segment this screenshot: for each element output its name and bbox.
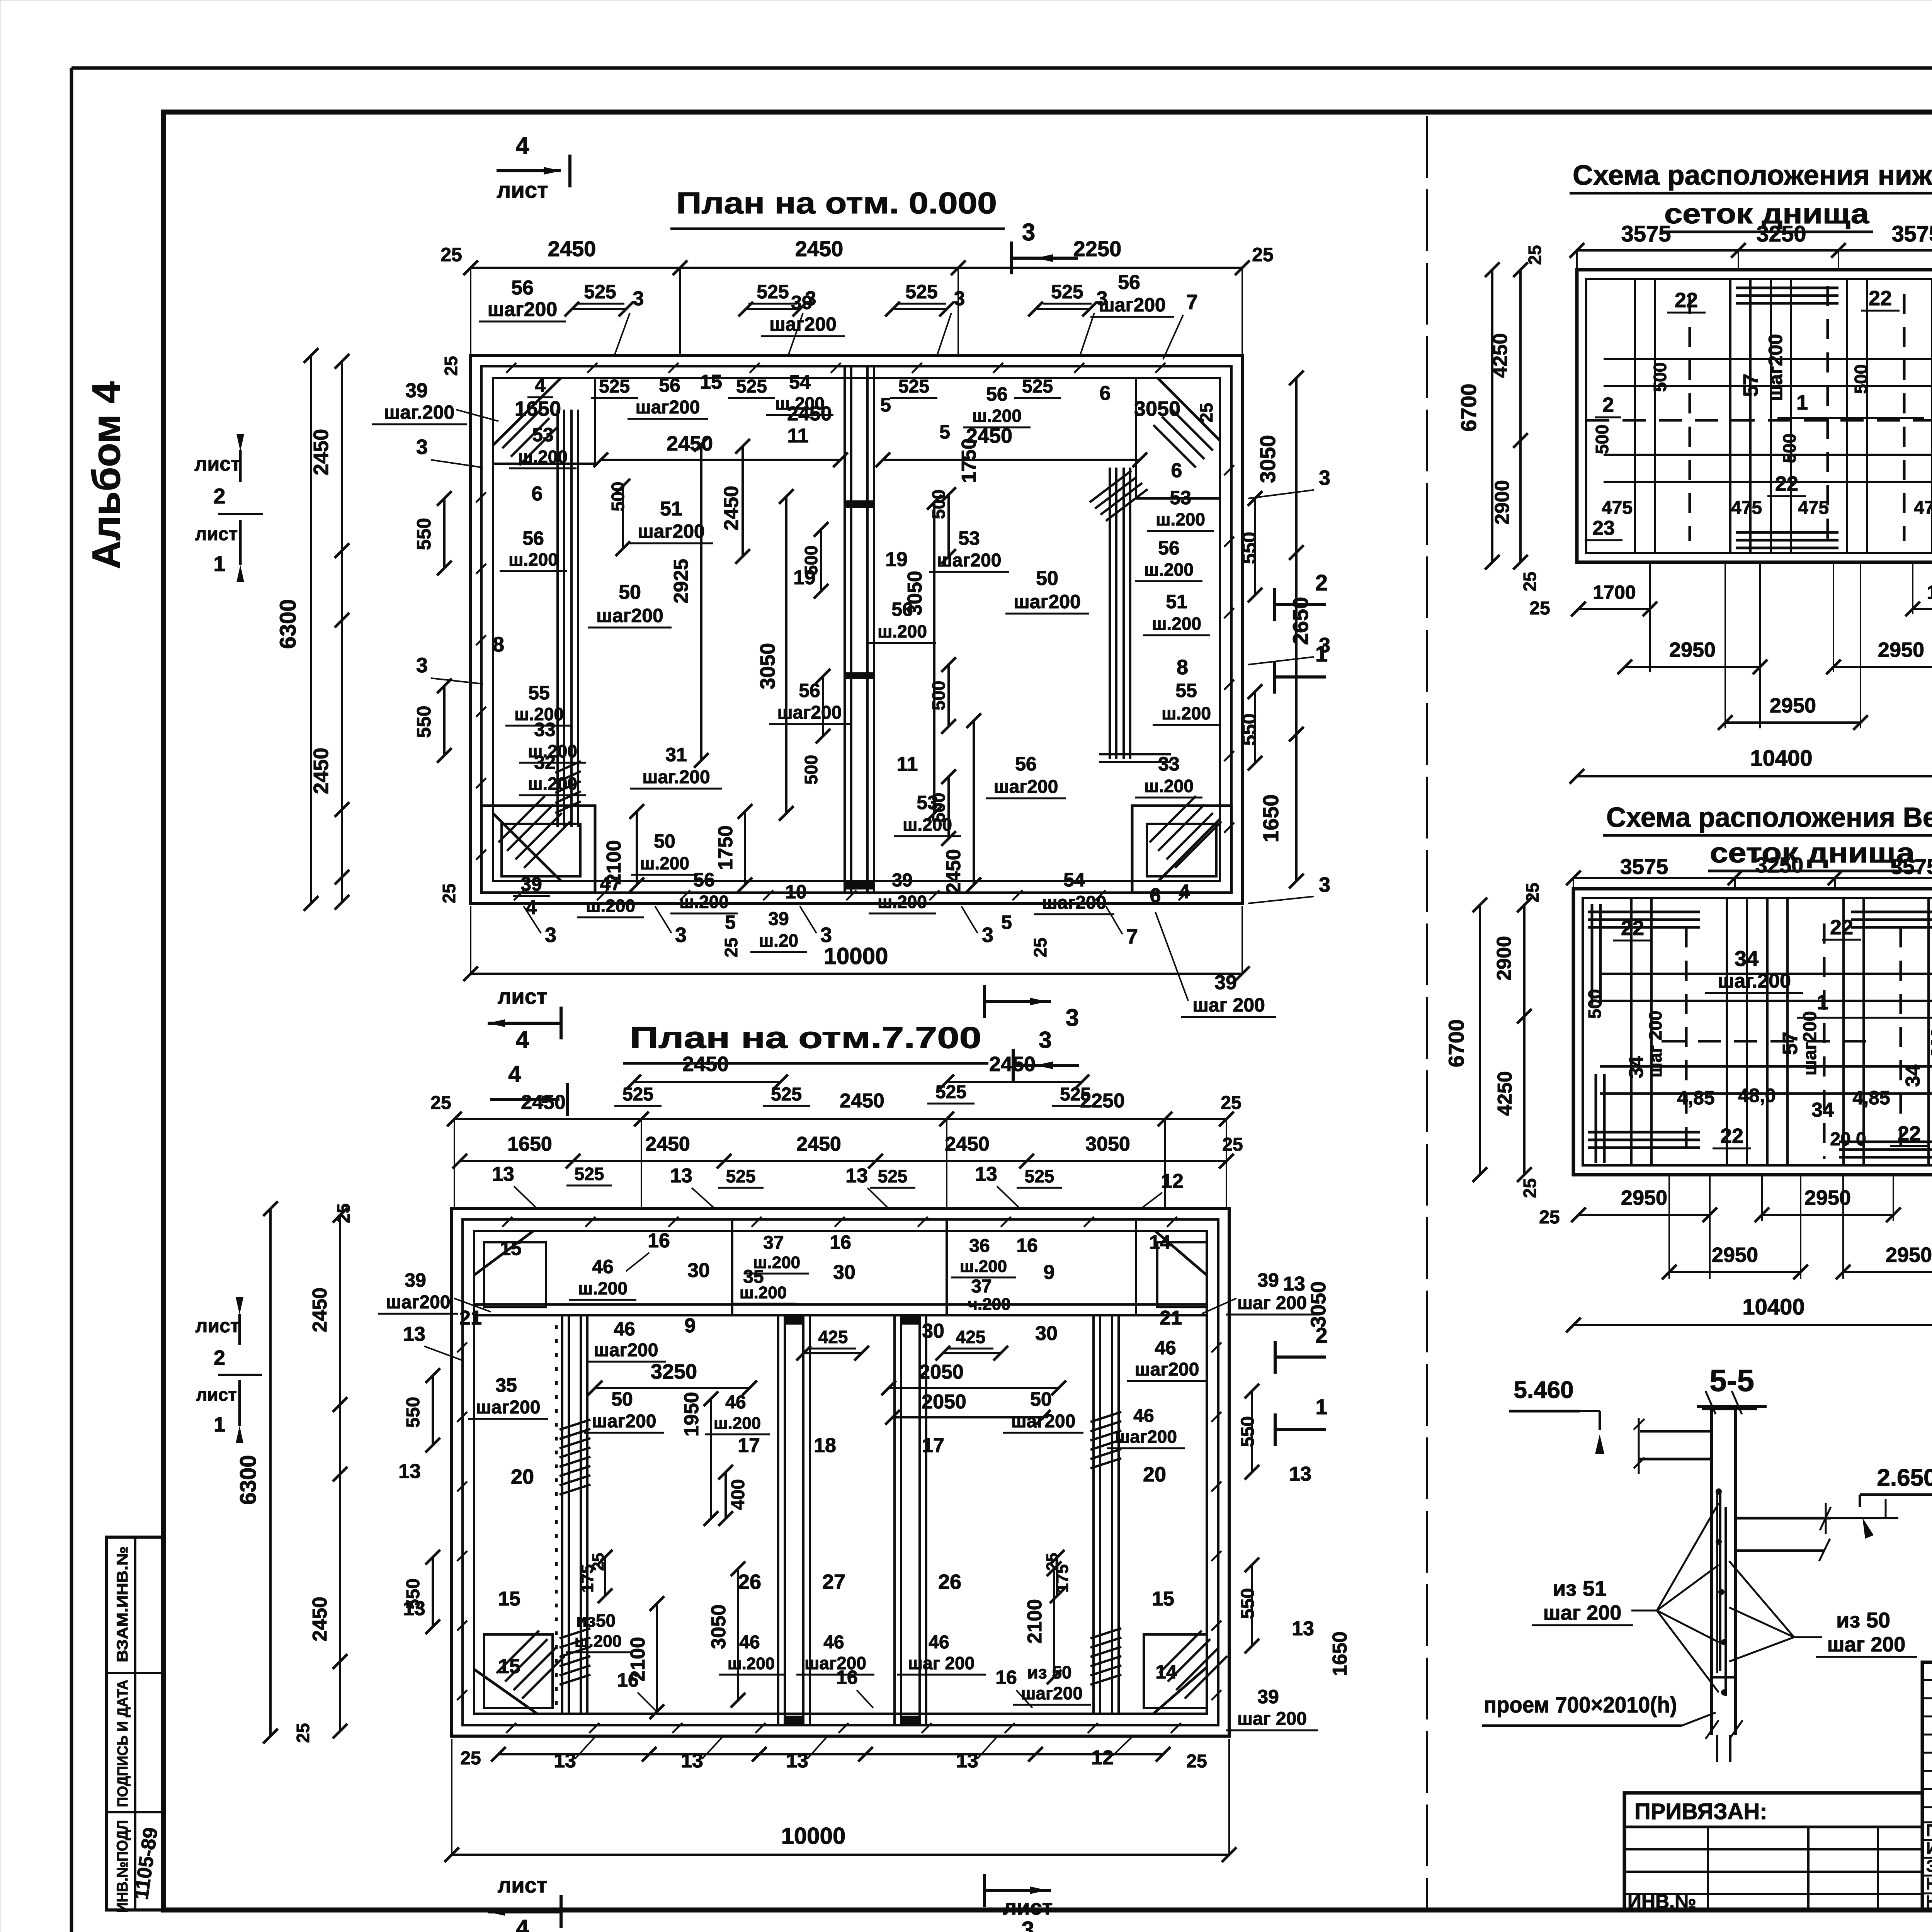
svg-text:2450: 2450	[667, 432, 713, 455]
svg-text:лист: лист	[196, 1315, 240, 1337]
plan 0.000 middle wall	[844, 366, 846, 893]
svg-text:шаг200: шаг200	[476, 1397, 541, 1418]
svg-text:54: 54	[1063, 869, 1085, 891]
svg-text:Схема расположения нижних: Схема расположения нижних	[1573, 160, 1932, 191]
svg-text:17: 17	[922, 1434, 944, 1457]
svg-text:525: 525	[1022, 376, 1053, 397]
svg-text:2950: 2950	[1770, 694, 1816, 717]
svg-text:ш.200: ш.200	[586, 896, 635, 916]
svg-text:525: 525	[898, 376, 929, 397]
svg-text:3: 3	[545, 923, 556, 947]
svg-text:шаг200: шаг200	[638, 520, 705, 542]
svg-text:50: 50	[1030, 1388, 1052, 1410]
svg-text:2900: 2900	[1491, 480, 1514, 525]
svg-text:2: 2	[1602, 393, 1614, 417]
svg-text:5: 5	[880, 394, 891, 416]
svg-text:46: 46	[739, 1632, 760, 1653]
plan 7.700 wall hatch marks right	[1211, 1342, 1221, 1352]
scheme bottom-lower top dims	[1577, 249, 1932, 252]
svg-text:1650: 1650	[1259, 794, 1283, 843]
svg-text:425: 425	[956, 1327, 986, 1347]
svg-text:16: 16	[995, 1667, 1017, 1688]
svg-text:15: 15	[700, 371, 722, 393]
sidebar stamp table	[107, 1537, 163, 1910]
svg-text:ЗАВ ГР.: ЗАВ ГР.	[1926, 1857, 1932, 1876]
svg-text:30: 30	[687, 1259, 710, 1282]
svg-text:6: 6	[1150, 884, 1161, 907]
svg-text:3: 3	[1039, 1027, 1051, 1053]
svg-text:500: 500	[1779, 434, 1799, 463]
svg-text:25: 25	[439, 883, 459, 903]
svg-text:шаг 200: шаг 200	[1237, 1709, 1307, 1729]
svg-text:шаг 200: шаг 200	[1827, 1633, 1906, 1656]
svg-text:3: 3	[1319, 466, 1330, 490]
svg-text:25: 25	[1030, 937, 1050, 957]
svg-text:10400: 10400	[1750, 746, 1812, 771]
svg-text:2050: 2050	[919, 1361, 964, 1383]
svg-text:46: 46	[1133, 1406, 1154, 1426]
svg-text:37: 37	[971, 1276, 992, 1297]
svg-text:22: 22	[1720, 1124, 1743, 1148]
scheme bottom-lower verticals	[1634, 279, 1636, 553]
svg-text:2450: 2450	[309, 1287, 331, 1332]
scheme bottom-upper verticals	[1630, 898, 1633, 1165]
svg-text:5: 5	[1001, 912, 1012, 933]
svg-text:сеток днища: сеток днища	[1710, 838, 1915, 869]
svg-text:56: 56	[986, 383, 1008, 405]
svg-text:525: 525	[1051, 281, 1083, 303]
svg-text:51: 51	[1166, 591, 1187, 612]
plan 7.700 wall hatch marks left	[457, 1342, 467, 1352]
svg-text:8: 8	[493, 633, 504, 656]
svg-text:2: 2	[213, 484, 225, 508]
svg-text:1: 1	[1315, 641, 1328, 667]
svg-text:шаг 200: шаг 200	[1543, 1601, 1622, 1624]
svg-text:шаг200: шаг200	[1021, 1683, 1083, 1703]
svg-text:2450: 2450	[945, 1133, 990, 1155]
svg-text:13: 13	[681, 1750, 703, 1772]
svg-text:2: 2	[1315, 570, 1328, 595]
svg-text:1700: 1700	[1593, 582, 1636, 603]
svg-text:лист: лист	[497, 178, 548, 203]
svg-text:550: 550	[1238, 713, 1260, 745]
svg-text:3: 3	[1022, 219, 1035, 246]
svg-text:2950: 2950	[1878, 638, 1924, 662]
plan 0.000 top dimension row	[471, 267, 1242, 269]
svg-text:550: 550	[403, 1397, 423, 1428]
svg-text:ш.200: ш.200	[878, 621, 927, 641]
svg-text:550: 550	[413, 706, 435, 738]
svg-text:55: 55	[1175, 680, 1197, 701]
svg-text:13: 13	[492, 1163, 514, 1185]
svg-text:25: 25	[1186, 1751, 1207, 1772]
svg-text:3575: 3575	[1621, 221, 1671, 247]
svg-text:7: 7	[1186, 291, 1198, 314]
svg-text:шаг200: шаг200	[1765, 334, 1786, 401]
svg-text:ш.200: ш.200	[728, 1654, 775, 1673]
svg-text:4250: 4250	[1489, 333, 1512, 378]
svg-text:55: 55	[528, 682, 550, 704]
svg-text:6700: 6700	[1456, 384, 1481, 432]
plan 7.700 corner box hatches	[497, 1631, 539, 1673]
plan 0.000 right partition hatch top	[1090, 471, 1131, 502]
scheme bottom-lower top triple bars	[1736, 287, 1838, 289]
scheme bottom-upper corner bars bottom-right	[1839, 1141, 1932, 1143]
svg-text:2450: 2450	[796, 1133, 841, 1155]
svg-text:3050: 3050	[707, 1604, 730, 1649]
svg-text:500: 500	[1585, 989, 1605, 1019]
svg-text:шаг200: шаг200	[1135, 1359, 1199, 1380]
svg-text:16: 16	[836, 1667, 858, 1688]
svg-text:2450: 2450	[942, 849, 965, 894]
plan 7.700 bottom section mark 3	[985, 1889, 1051, 1892]
svg-text:475: 475	[1602, 498, 1633, 518]
plan 0.000 bottom-left chamber box	[481, 806, 595, 893]
svg-text:20 0: 20 0	[1830, 1129, 1866, 1150]
svg-text:5.460: 5.460	[1514, 1377, 1573, 1403]
svg-text:4: 4	[508, 1061, 521, 1087]
section 5-5 opening lintel	[1712, 1676, 1735, 1679]
svg-text:33: 33	[1158, 753, 1180, 775]
scheme bottom-lower outer rect	[1577, 270, 1932, 562]
svg-text:56: 56	[511, 277, 534, 299]
svg-text:2950: 2950	[1712, 1243, 1758, 1267]
svg-text:32: 32	[534, 752, 556, 773]
svg-text:8: 8	[1177, 656, 1188, 679]
svg-text:56: 56	[1015, 753, 1037, 775]
svg-text:3: 3	[954, 287, 965, 310]
svg-text:3575: 3575	[1891, 221, 1932, 247]
svg-text:25: 25	[1520, 1178, 1540, 1198]
svg-text:39: 39	[405, 1269, 426, 1291]
svg-text:50: 50	[1036, 567, 1058, 590]
scheme bottom-upper corner bars bottom-left	[1588, 1131, 1700, 1134]
svg-text:525: 525	[905, 281, 937, 303]
plan 7.700 corner chamber top-left	[484, 1242, 546, 1307]
svg-text:37: 37	[763, 1233, 784, 1253]
svg-text:500: 500	[801, 755, 821, 785]
svg-text:34: 34	[1811, 1099, 1834, 1121]
svg-text:51: 51	[660, 498, 682, 520]
svg-text:2450: 2450	[682, 1053, 729, 1076]
svg-text:13: 13	[554, 1750, 576, 1772]
plan 7.700 right partition hatch	[1090, 1412, 1121, 1422]
svg-text:39: 39	[520, 873, 542, 895]
svg-text:ч.200: ч.200	[968, 1295, 1010, 1314]
svg-text:475: 475	[1914, 498, 1932, 518]
svg-text:1: 1	[213, 551, 225, 576]
svg-text:10000: 10000	[781, 1823, 846, 1849]
scheme bottom-upper bottom dims	[1578, 1214, 1710, 1216]
svg-text:шаг.200: шаг.200	[384, 401, 455, 423]
svg-text:53: 53	[1170, 487, 1191, 509]
svg-text:22: 22	[1621, 917, 1644, 940]
svg-text:шаг 200: шаг 200	[1645, 1011, 1665, 1078]
svg-text:ш.200: ш.200	[960, 1257, 1007, 1276]
svg-text:525: 525	[771, 1084, 802, 1105]
scheme bottom-lower extension verticals	[1649, 562, 1651, 672]
svg-text:ш.200: ш.200	[528, 774, 577, 794]
svg-text:1650: 1650	[507, 1133, 552, 1155]
svg-text:2100: 2100	[1024, 1599, 1046, 1644]
svg-text:ИНВ.№: ИНВ.№	[1628, 1891, 1696, 1912]
svg-text:2450: 2450	[966, 424, 1012, 447]
svg-text:34: 34	[1625, 1056, 1648, 1078]
svg-text:3: 3	[416, 435, 428, 459]
svg-text:2450: 2450	[310, 429, 333, 475]
svg-text:48,0: 48,0	[1738, 1085, 1776, 1106]
svg-text:3575: 3575	[1891, 854, 1932, 879]
svg-text:4,85: 4,85	[1677, 1087, 1714, 1109]
svg-text:5: 5	[725, 912, 736, 933]
svg-text:2900: 2900	[1493, 936, 1515, 981]
svg-text:проем 700×2010(h): проем 700×2010(h)	[1484, 1692, 1677, 1718]
svg-text:шаг.200: шаг.200	[642, 767, 710, 787]
svg-text:20: 20	[1143, 1463, 1166, 1486]
scheme bottom-upper corner bars top-left	[1588, 911, 1700, 913]
svg-text:шаг200: шаг200	[994, 777, 1058, 797]
svg-text:3250: 3250	[651, 1360, 697, 1383]
svg-text:ш.200: ш.200	[1162, 703, 1211, 723]
svg-text:25: 25	[721, 937, 741, 957]
svg-text:14: 14	[1155, 1661, 1177, 1683]
svg-text:15: 15	[498, 1655, 520, 1678]
svg-text:3050: 3050	[1255, 435, 1280, 483]
svg-text:3: 3	[820, 923, 832, 947]
svg-text:План на отм. 0.000: План на отм. 0.000	[676, 186, 997, 220]
svg-text:2250: 2250	[1073, 236, 1122, 261]
svg-text:13: 13	[398, 1460, 421, 1483]
svg-text:56: 56	[891, 599, 913, 620]
svg-text:525: 525	[935, 1082, 966, 1102]
svg-text:25: 25	[440, 244, 462, 265]
svg-text:1750: 1750	[714, 825, 737, 870]
svg-text:53: 53	[958, 527, 980, 549]
svg-text:13: 13	[1289, 1463, 1311, 1485]
svg-text:шаг200: шаг200	[488, 298, 558, 321]
svg-text:22: 22	[1869, 287, 1892, 310]
svg-text:3050: 3050	[1085, 1133, 1130, 1155]
svg-text:2450: 2450	[521, 1091, 566, 1114]
svg-text:1700: 1700	[1927, 582, 1932, 603]
svg-text:13: 13	[956, 1750, 978, 1772]
fold line	[1426, 116, 1428, 1909]
svg-text:Схема расположения Верхних: Схема расположения Верхних	[1606, 802, 1932, 833]
svg-text:7: 7	[1126, 925, 1138, 948]
svg-text:1: 1	[214, 1413, 225, 1436]
svg-text:шаг200: шаг200	[1115, 1427, 1177, 1447]
svg-text:3575: 3575	[1620, 854, 1668, 879]
plan 0.000 bottom dimension 10000	[471, 973, 1242, 975]
scheme bottom-lower bottom dims	[1578, 608, 1650, 610]
svg-text:лист: лист	[1003, 1895, 1053, 1919]
svg-text:13: 13	[1283, 1273, 1305, 1295]
svg-text:39: 39	[1257, 1686, 1279, 1708]
svg-text:ш.200: ш.200	[740, 1283, 787, 1302]
svg-text:шаг 200: шаг 200	[1927, 1028, 1932, 1095]
svg-text:2450: 2450	[720, 486, 743, 531]
svg-text:475: 475	[1798, 498, 1829, 518]
svg-text:17: 17	[738, 1434, 760, 1457]
svg-text:16: 16	[648, 1230, 670, 1252]
svg-text:56: 56	[1158, 537, 1180, 559]
svg-text:21: 21	[1160, 1307, 1182, 1329]
plan 0.000 right partition base lines	[1099, 753, 1171, 755]
plan 0.000 right dimension column	[1254, 498, 1256, 595]
svg-text:1950: 1950	[680, 1392, 703, 1437]
svg-text:2950: 2950	[1621, 1186, 1667, 1209]
svg-text:4: 4	[516, 133, 529, 159]
svg-text:6300: 6300	[276, 599, 301, 649]
svg-text:9: 9	[685, 1315, 696, 1337]
svg-text:19: 19	[793, 566, 816, 589]
svg-text:57: 57	[1739, 374, 1762, 397]
svg-text:550: 550	[413, 518, 435, 550]
svg-text:шаг 200: шаг 200	[1237, 1293, 1307, 1313]
svg-text:ш.200: ш.200	[518, 447, 568, 467]
plan 7.700 top dim row upper	[634, 1081, 781, 1083]
svg-text:9: 9	[1044, 1261, 1055, 1284]
svg-text:ПРОВЕР: ПРОВЕР	[1926, 1821, 1932, 1840]
svg-text:25: 25	[1529, 598, 1550, 619]
svg-text:525: 525	[575, 1164, 604, 1184]
scheme bottom-upper corner bars top-right	[1851, 911, 1932, 913]
svg-text:25: 25	[460, 1748, 481, 1769]
plan 7.700 top dim row B	[460, 1160, 1226, 1162]
plan 7.700 corner chamfers	[474, 1231, 533, 1275]
plan 7.700 corner chamber bottom-left	[484, 1634, 553, 1708]
svg-text:13: 13	[786, 1750, 808, 1772]
svg-text:550: 550	[1238, 1588, 1258, 1619]
svg-text:ИНЖ.ГК: ИНЖ.ГК	[1926, 1839, 1932, 1858]
svg-text:1: 1	[1817, 991, 1828, 1014]
svg-text:56: 56	[522, 527, 544, 549]
scheme bottom-upper left dims	[1479, 905, 1481, 1175]
plan 0.000 outer walls	[471, 355, 1242, 903]
svg-text:6300: 6300	[236, 1455, 261, 1505]
plan 7.700 bottom dimension 10000	[452, 1854, 1229, 1856]
svg-text:НАЧ.ОТД: НАЧ.ОТД	[1926, 1892, 1932, 1911]
svg-text:13: 13	[403, 1323, 425, 1345]
section 5-5 left slab	[1640, 1430, 1712, 1433]
plan 0.000 left wall hatch marks	[476, 492, 486, 502]
title block names table	[1922, 1662, 1932, 1910]
svg-text:13: 13	[845, 1165, 868, 1187]
svg-text:25: 25	[1221, 1093, 1241, 1113]
svg-text:500: 500	[1650, 362, 1670, 392]
svg-text:50: 50	[611, 1388, 633, 1410]
svg-text:15: 15	[500, 1238, 522, 1259]
plan 0.000 mid wall seals	[845, 672, 874, 679]
plan 0.000 right partition	[1109, 468, 1111, 759]
svg-text:ИНВ.№ПОДЛ: ИНВ.№ПОДЛ	[114, 1820, 131, 1913]
svg-text:3050: 3050	[1307, 1281, 1330, 1328]
plan 0.000 corner chamfers	[493, 378, 561, 445]
svg-text:2450: 2450	[548, 236, 596, 261]
plan 0.000 top-left chamber	[594, 378, 596, 464]
svg-text:46: 46	[592, 1256, 614, 1277]
svg-text:2925: 2925	[670, 559, 692, 604]
svg-text:500: 500	[1851, 364, 1871, 394]
svg-text:13: 13	[403, 1597, 425, 1620]
svg-text:1650: 1650	[515, 397, 561, 420]
svg-text:из 50: из 50	[1836, 1608, 1890, 1632]
svg-text:6: 6	[1100, 382, 1111, 405]
svg-text:10000: 10000	[824, 943, 888, 969]
svg-text:56: 56	[1118, 271, 1140, 294]
svg-text:525: 525	[599, 376, 630, 397]
svg-text:4: 4	[1179, 881, 1190, 903]
svg-text:22: 22	[1830, 916, 1853, 939]
plan 7.700 top dim row A	[454, 1118, 1226, 1120]
svg-text:15: 15	[1152, 1588, 1174, 1610]
svg-text:ш.200: ш.200	[575, 1632, 622, 1651]
svg-text:56: 56	[659, 374, 680, 396]
svg-text:шаг 200: шаг 200	[908, 1653, 975, 1673]
svg-text:25: 25	[1520, 571, 1540, 591]
plan 7.700 left partition	[561, 1315, 563, 1714]
svg-text:30: 30	[833, 1261, 855, 1284]
svg-text:46: 46	[823, 1632, 844, 1653]
svg-text:25: 25	[430, 1093, 451, 1113]
svg-text:525: 525	[584, 281, 616, 303]
svg-text:1: 1	[1796, 391, 1808, 414]
svg-text:2450: 2450	[309, 1597, 331, 1641]
svg-text:50: 50	[654, 830, 675, 852]
svg-text:лист: лист	[498, 1873, 548, 1897]
svg-text:21: 21	[459, 1307, 482, 1329]
svg-text:22: 22	[1675, 289, 1698, 312]
svg-text:лист: лист	[195, 524, 238, 544]
svg-text:ВЗАМ.ИНВ.№: ВЗАМ.ИНВ.№	[114, 1546, 131, 1662]
svg-text:ш.200: ш.200	[878, 892, 927, 912]
svg-text:18: 18	[814, 1434, 836, 1457]
svg-text:10: 10	[785, 881, 807, 903]
svg-text:500: 500	[929, 681, 949, 711]
svg-text:ш.200: ш.200	[679, 892, 729, 912]
svg-text:35: 35	[495, 1374, 517, 1396]
svg-text:25: 25	[1539, 1207, 1560, 1228]
svg-text:525: 525	[736, 376, 767, 397]
svg-text:ш.200: ш.200	[1156, 509, 1205, 529]
svg-text:шаг200: шаг200	[1099, 294, 1166, 316]
svg-text:4: 4	[516, 1027, 529, 1053]
svg-text:16: 16	[617, 1669, 639, 1691]
svg-text:27: 27	[822, 1570, 845, 1594]
plan 7.700 left dim column	[269, 1209, 272, 1736]
svg-text:13: 13	[670, 1165, 692, 1187]
svg-text:26: 26	[938, 1570, 961, 1594]
svg-text:шаг200: шаг200	[596, 605, 663, 626]
plan 7.700 interior dim lines	[595, 1387, 750, 1389]
scheme bottom-lower bottom triple bars	[1736, 531, 1838, 534]
svg-text:2950: 2950	[1886, 1243, 1932, 1267]
plan 0.000 left dimension column	[310, 355, 312, 903]
svg-text:22: 22	[1775, 472, 1798, 495]
svg-text:3250: 3250	[1755, 853, 1804, 877]
svg-text:13: 13	[1292, 1617, 1314, 1640]
svg-text:2.650: 2.650	[1877, 1464, 1932, 1491]
svg-text:3: 3	[633, 287, 644, 310]
svg-text:шаг200: шаг200	[1800, 1011, 1820, 1076]
svg-text:3050: 3050	[756, 643, 779, 689]
svg-text:3: 3	[416, 654, 428, 677]
svg-text:ш.200: ш.200	[972, 406, 1022, 426]
svg-text:из50: из50	[576, 1611, 616, 1631]
svg-text:шаг200: шаг200	[1042, 893, 1107, 913]
svg-text:39: 39	[1257, 1269, 1279, 1291]
svg-text:ш.200: ш.200	[640, 853, 689, 873]
